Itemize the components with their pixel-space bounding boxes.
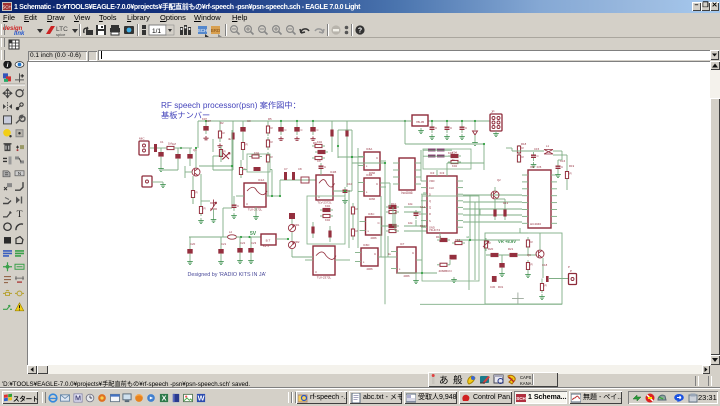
svg-text:R18: R18 (521, 142, 527, 146)
svg-text:VDD: VDD (429, 179, 435, 183)
svg-text:C: C (561, 165, 564, 169)
svg-text:R: R (196, 191, 199, 195)
svg-text:1M: 1M (172, 142, 177, 146)
svg-text:C12: C12 (420, 205, 426, 209)
svg-text:IC6A: IC6A (366, 147, 372, 151)
svg-text:R31: R31 (498, 285, 504, 289)
svg-text:R5: R5 (268, 117, 272, 121)
svg-text:K04: K04 (317, 140, 322, 144)
svg-text:GND: GND (429, 225, 435, 229)
svg-text:SCH: SCH (198, 28, 208, 33)
svg-text:K04: K04 (325, 218, 330, 222)
svg-text:IC1A: IC1A (258, 178, 264, 182)
svg-text:C1: C1 (160, 140, 164, 144)
svg-text:R19: R19 (569, 164, 575, 168)
svg-text:R13: R13 (503, 201, 509, 205)
svg-text:IC3: IC3 (440, 171, 445, 175)
svg-text:1/1: 1/1 (152, 28, 161, 35)
svg-text:R: R (204, 207, 207, 211)
svg-text:K04: K04 (448, 151, 453, 155)
svg-text:K04: K04 (452, 164, 457, 168)
svg-text:R: R (531, 263, 534, 267)
svg-text:R9: R9 (313, 141, 317, 145)
svg-text:C10: C10 (347, 182, 353, 186)
svg-text:IC3: IC3 (430, 171, 435, 175)
svg-text:R: R (545, 284, 548, 288)
svg-text:R: R (271, 126, 274, 130)
svg-text:VR2: VR2 (294, 240, 300, 244)
svg-text:R21: R21 (508, 247, 514, 251)
svg-text:TLV-2372L: TLV-2372L (248, 208, 263, 212)
svg-text:C21: C21 (221, 242, 227, 246)
svg-text:R10: R10 (391, 202, 397, 206)
svg-text:あ: あ (439, 376, 449, 387)
svg-text:L1: L1 (546, 144, 550, 148)
svg-text:K07: K07 (206, 119, 211, 123)
svg-text:R15: R15 (436, 235, 442, 239)
svg-text:K04: K04 (325, 204, 330, 208)
svg-text:L2: L2 (229, 230, 233, 234)
svg-text:C: C (285, 128, 287, 132)
svg-text:C: C (324, 165, 327, 169)
svg-text:HC4046: HC4046 (530, 222, 541, 226)
svg-text:T: T (17, 210, 23, 220)
svg-text:Q2: Q2 (497, 178, 501, 182)
svg-text:C: C (450, 126, 453, 130)
svg-text:C23: C23 (251, 241, 257, 245)
svg-text:R: R (224, 150, 227, 154)
svg-text:IC6C: IC6C (368, 212, 374, 216)
svg-text:R16: R16 (455, 238, 461, 242)
svg-text:i: i (7, 62, 9, 69)
svg-text:C9: C9 (317, 159, 321, 163)
svg-text:CLK: CLK (429, 186, 434, 190)
svg-text:IC6D: IC6D (363, 243, 369, 247)
svg-text:S: S (429, 219, 431, 223)
svg-text:C7: C7 (284, 167, 288, 171)
svg-text:IC6B: IC6B (366, 173, 372, 177)
svg-text:Q: Q (429, 199, 431, 203)
svg-text:4066: 4066 (370, 236, 377, 240)
svg-text:R20: R20 (488, 247, 494, 251)
svg-text:R: R (522, 146, 525, 150)
svg-text:P: P (570, 269, 572, 273)
svg-text:P: P (568, 265, 570, 269)
svg-text:K2 3: K2 3 (263, 244, 269, 248)
svg-text:1k: 1k (388, 252, 392, 256)
svg-text:?: ? (358, 28, 362, 35)
svg-text:N: N (18, 171, 21, 176)
svg-text:RF speech processor(psn) 案作図中：: RF speech processor(psn) 案作図中： (161, 100, 301, 110)
svg-text:IC1B: IC1B (330, 170, 336, 174)
svg-text:Q̄: Q̄ (429, 205, 431, 209)
svg-text:R: R (246, 143, 249, 147)
svg-text:IC7: IC7 (400, 242, 405, 246)
svg-text:IC5: IC5 (530, 165, 535, 169)
svg-text:R: R (271, 140, 274, 144)
svg-text:hc4046: hc4046 (401, 191, 412, 195)
svg-text:W: W (197, 394, 204, 403)
svg-text:C: C (317, 128, 319, 132)
svg-text:C: C (465, 126, 468, 130)
svg-text:n2: n2 (466, 235, 470, 239)
svg-text:C: C (237, 204, 240, 208)
svg-text:R: R (271, 155, 274, 159)
svg-text:SCH: SCH (2, 5, 12, 10)
svg-text:R11: R11 (420, 224, 425, 228)
svg-text:4066: 4066 (366, 267, 373, 271)
svg-text:C20: C20 (190, 242, 196, 246)
svg-text:X: X (161, 394, 166, 403)
svg-text:4066: 4066 (369, 197, 376, 201)
svg-text:般: 般 (453, 375, 463, 387)
svg-text:4066BCN: 4066BCN (438, 269, 451, 273)
svg-text:MIC: MIC (139, 137, 145, 141)
svg-text:JP: JP (491, 110, 495, 114)
svg-text:TLV-2372L: TLV-2372L (317, 276, 332, 280)
svg-text:Designed by 'RADIO KITS IN JA: Designed by 'RADIO KITS IN JA' (188, 272, 267, 278)
svg-text:C8: C8 (298, 167, 302, 171)
svg-text:C22: C22 (240, 241, 246, 245)
svg-text:C: C (435, 126, 438, 130)
svg-text:R: R (223, 131, 226, 135)
svg-text:VR1: VR1 (294, 223, 300, 227)
svg-text:78L05: 78L05 (416, 120, 425, 124)
svg-text:5V: 5V (250, 231, 257, 237)
svg-text:C15: C15 (534, 147, 540, 151)
svg-text:C: C (301, 128, 303, 132)
svg-text:R: R (429, 212, 431, 216)
svg-text:U: U (315, 270, 317, 274)
svg-text:M: M (75, 394, 81, 403)
svg-text:KANA: KANA (520, 381, 532, 386)
svg-text:C18: C18 (542, 263, 548, 267)
svg-text:4k: 4k (228, 137, 232, 141)
svg-text:K04: K04 (254, 151, 259, 155)
svg-text:C3: C3 (247, 119, 251, 123)
svg-text:SCH: SCH (516, 396, 526, 401)
svg-text:C30: C30 (490, 285, 496, 289)
svg-text:10k: 10k (408, 221, 413, 225)
svg-text:R: R (531, 240, 534, 244)
svg-text:C: C (537, 154, 540, 158)
svg-text:R: R (570, 172, 573, 176)
svg-text:4066: 4066 (403, 274, 410, 278)
svg-text:BRD: BRD (211, 28, 221, 33)
svg-text:U: U (246, 202, 248, 206)
svg-text:10k: 10k (408, 202, 413, 206)
svg-text:CAPS: CAPS (520, 375, 532, 380)
svg-text:Q3: Q3 (527, 253, 531, 257)
svg-text:C16: C16 (560, 159, 566, 163)
svg-text:R2: R2 (220, 121, 224, 125)
svg-text:R: R (522, 155, 525, 159)
svg-text:B.T: B.T (266, 239, 271, 243)
svg-text:Q1: Q1 (193, 148, 197, 152)
svg-text:IC5: IC5 (537, 165, 542, 169)
